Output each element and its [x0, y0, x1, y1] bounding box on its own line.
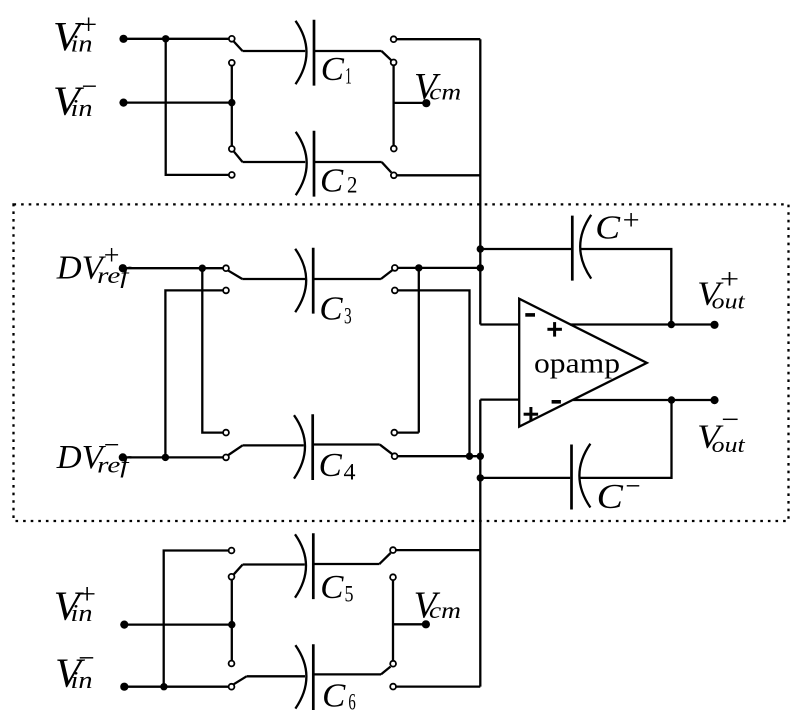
- capacitor C1: [296, 20, 315, 86]
- wire C5 right: [313, 563, 379, 565]
- junction on DVref+: [199, 265, 206, 272]
- switch U8 bottom block right: [381, 661, 396, 690]
- wire S1 to C1: [243, 50, 306, 52]
- switch M2 C3 right: [381, 265, 398, 293]
- svg-text:4: 4: [344, 460, 357, 485]
- junction on DVref-: [162, 454, 169, 461]
- terminal Vin- (bottom): [120, 683, 128, 691]
- svg-text:−: −: [82, 71, 98, 102]
- wire C2 right: [314, 161, 382, 163]
- wire Vcm stub vertical (bottom): [392, 581, 394, 661]
- svg-text:−: −: [78, 642, 94, 674]
- wire U7 to C6: [247, 675, 305, 677]
- dashed DAC block boundary: [14, 204, 789, 521]
- label C+: [595, 205, 639, 247]
- wire U5 throw-a to Vin- (bottom): [164, 551, 229, 687]
- label op-amp minus (upper input): [525, 313, 535, 317]
- junction M4 wire at lower bus: [477, 453, 484, 460]
- svg-text:+: +: [80, 10, 97, 41]
- node Vcm (bottom) label: [414, 585, 461, 627]
- switch M3 DVref- to C4: [223, 430, 242, 461]
- label C1: [321, 51, 352, 88]
- wire C3 right: [313, 278, 381, 280]
- svg-text:−: −: [625, 471, 640, 503]
- wire op-amp inverting input: [480, 323, 519, 325]
- wire M2 throw-b cross to non-inverting node: [398, 290, 470, 456]
- capacitor C+: [572, 215, 591, 281]
- wire op-amp non-inverting input: [480, 398, 519, 400]
- terminal Vcm (bottom): [422, 620, 430, 628]
- label op-amp plus (upper input): [547, 322, 562, 337]
- wire cross-couple down to C4 switch: [418, 268, 420, 433]
- wire DVref+ horizontal: [123, 267, 223, 269]
- svg-text:cm: cm: [429, 598, 461, 623]
- svg-text:C: C: [322, 678, 346, 715]
- node Vin+ (top) label: [53, 10, 97, 59]
- node Vin- (top) label: [53, 71, 97, 123]
- wire S2 to C2: [243, 161, 306, 163]
- capacitor C6: [295, 644, 313, 710]
- label C-: [597, 471, 641, 516]
- wire DVref- horizontal: [123, 456, 223, 458]
- label C4: [319, 447, 356, 485]
- wire U5 to C5: [243, 563, 305, 565]
- label C3: [319, 291, 351, 329]
- wire M3 to C4: [243, 444, 304, 446]
- svg-text:C: C: [321, 51, 345, 88]
- terminal Vin+ (top): [119, 35, 127, 43]
- svg-text:+: +: [623, 205, 640, 237]
- node Vout- label: [697, 404, 746, 457]
- capacitor C4: [294, 414, 313, 480]
- wire Vin- (bottom) horizontal: [124, 686, 228, 688]
- terminal Vcm (top): [422, 99, 430, 107]
- wire Vcm stub horizontal (bottom): [393, 623, 425, 625]
- junction on Vin+ (top): [162, 35, 169, 42]
- svg-text:2: 2: [347, 172, 357, 197]
- switch U7 bottom block: [229, 661, 247, 690]
- svg-text:−: −: [104, 430, 120, 461]
- op-amp U1: [519, 299, 647, 427]
- switch T1 top block right: [382, 36, 397, 65]
- label C6: [322, 678, 356, 715]
- wire Vin+ vertical down to S2 throw: [166, 39, 229, 175]
- wire Vout+ line: [570, 323, 715, 325]
- svg-text:5: 5: [345, 582, 354, 607]
- wire lower bus vertical: [479, 400, 481, 687]
- label op-amp plus (lower input): [524, 407, 539, 422]
- capacitor C- wire left: [480, 477, 570, 479]
- label C5: [320, 569, 353, 607]
- svg-text:6: 6: [348, 689, 355, 714]
- svg-text:cm: cm: [429, 80, 461, 105]
- wire Vcm stub vertical (top): [392, 66, 394, 146]
- junction on Vin+ (bottom): [228, 621, 235, 628]
- svg-text:C: C: [595, 210, 620, 247]
- svg-text:−: −: [721, 404, 739, 436]
- node Vin+ (bottom) label: [54, 579, 96, 629]
- junction on Vin- (bottom): [160, 683, 167, 690]
- capacitor C3: [295, 248, 313, 314]
- terminal DVref+: [119, 264, 127, 272]
- node Vin- (bottom) label: [55, 642, 95, 695]
- wire M2 to inverting summing node: [398, 267, 480, 269]
- svg-text:C: C: [319, 291, 343, 328]
- svg-text:C: C: [597, 477, 624, 516]
- wire M4 throw-a to cross-couple: [398, 431, 419, 433]
- wire U8 throw-b to lower bus: [396, 685, 480, 687]
- label op-amp minus (lower input): [552, 400, 561, 404]
- junction M2 cross-couple: [415, 264, 422, 271]
- terminal Vout-: [710, 396, 718, 404]
- wire C+ right to Vout+: [581, 249, 671, 325]
- junction top bus at C+ branch: [477, 245, 484, 252]
- capacitor C2: [296, 131, 314, 197]
- junction lower bus at C- branch: [477, 474, 484, 481]
- switch U5 bottom block: [229, 548, 243, 580]
- junction C- at Vout-: [668, 396, 675, 403]
- terminal DVref-: [119, 453, 127, 461]
- wire C4 right: [313, 443, 380, 445]
- junction C+ at Vout+: [668, 321, 675, 328]
- svg-text:C: C: [320, 569, 344, 606]
- wire T2 to top bus: [397, 174, 480, 176]
- terminal Vout+: [710, 321, 718, 329]
- node DVref- label: [56, 430, 133, 477]
- svg-text:C: C: [320, 162, 344, 199]
- wire Vin- down to S2: [231, 103, 233, 146]
- capacitor C+ wire left: [480, 248, 571, 250]
- node DVref+ label: [56, 241, 133, 288]
- node Vcm (top) label: [414, 66, 461, 108]
- wire C1 right: [314, 50, 382, 52]
- svg-text:3: 3: [344, 304, 352, 329]
- wire T1 to top bus: [397, 38, 480, 40]
- switch T2 top block right: [382, 146, 397, 179]
- wire Vout- line: [573, 399, 714, 401]
- wire M4 to non-inverting summing node: [398, 455, 481, 457]
- wire M1 to C3: [242, 278, 305, 280]
- label C2: [320, 162, 357, 199]
- junction on Vin- (top): [228, 99, 235, 106]
- wire M1 throw-b to DVref- net: [165, 290, 222, 457]
- wire Vin+ (bottom) horizontal: [124, 623, 232, 625]
- wire S1 throw-b down to Vin- node: [231, 66, 233, 103]
- svg-text:+: +: [104, 241, 120, 272]
- junction cross-couple at non-inverting node: [466, 453, 473, 460]
- switch S1 top block: [229, 36, 243, 66]
- wire U5 pole down to Vin+ (bottom): [231, 580, 233, 625]
- switch S2 top block: [229, 146, 243, 178]
- wire DVref+ down to C4 switch: [202, 268, 223, 432]
- wire Vin+ junction down to U7 throw: [231, 625, 233, 661]
- wire U6 to lower bus: [396, 549, 480, 551]
- wire top bus vertical: [479, 39, 481, 324]
- node Vout+ label: [697, 263, 746, 313]
- junction top bus at C3 branch: [477, 264, 484, 271]
- wire C6 right: [313, 673, 381, 675]
- terminal Vin+ (bottom): [120, 621, 128, 629]
- wire Vcm stub horizontal (top): [394, 102, 425, 104]
- svg-text:opamp: opamp: [534, 349, 620, 380]
- wire Vin+ (top) horizontal: [124, 38, 229, 40]
- terminal Vin- (top): [119, 99, 127, 107]
- capacitor C5: [295, 533, 313, 599]
- svg-text:+: +: [78, 579, 96, 611]
- capacitor C-: [572, 444, 591, 510]
- svg-text:C: C: [319, 447, 343, 484]
- switch M4 C4 right: [380, 430, 398, 459]
- wire Vin- (top) horizontal: [124, 101, 232, 103]
- svg-text:1: 1: [345, 63, 352, 88]
- svg-text:+: +: [720, 263, 739, 295]
- wire C- right to Vout-: [580, 400, 671, 478]
- switch U6 bottom block right: [379, 547, 396, 580]
- switch M1 DVref+ to C3: [223, 265, 242, 293]
